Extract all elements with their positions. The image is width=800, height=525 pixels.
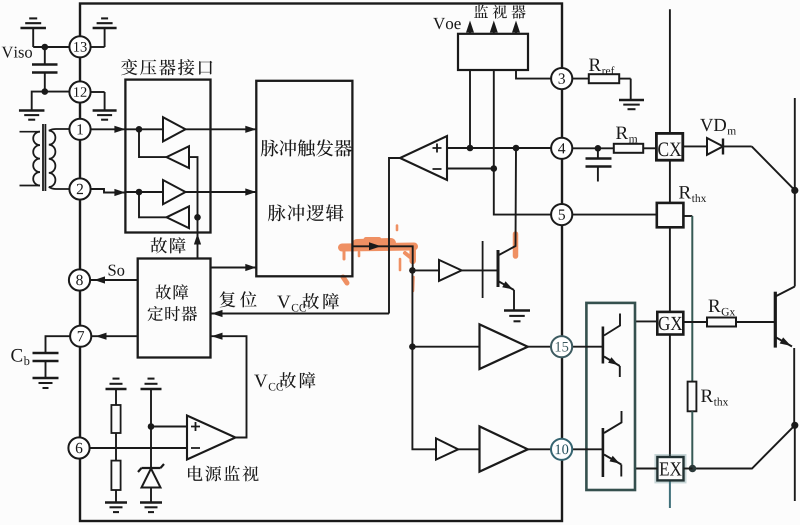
transformer interface box U1 — [125, 80, 210, 233]
wire EX to node — [684, 468, 693, 470]
pin 3 — [551, 68, 572, 89]
orange highlighter marks — [342, 226, 516, 292]
label C_b — [11, 349, 22, 362]
label R_m — [616, 127, 628, 139]
transistor Q1 — [462, 148, 516, 310]
pin 5 — [551, 204, 572, 225]
wire - input — [447, 168, 494, 170]
resistor R_m — [614, 144, 656, 153]
wire comparator output down to reset — [389, 158, 400, 314]
gate bus rail — [669, 9, 671, 508]
ground (left divider bottom, earth) — [105, 490, 127, 512]
wire A3 output to pulse trigger — [186, 188, 257, 195]
capacitor C_b — [33, 336, 71, 377]
label R_Gx — [709, 300, 721, 312]
wire pulse logic output (highlighted) — [353, 242, 416, 273]
ground (right of pin 13, inverted earth) — [90, 18, 116, 47]
transformer T1 — [20, 124, 70, 191]
wire A1 output to pulse trigger — [186, 126, 257, 133]
pin 12 — [69, 81, 90, 102]
terminal box CX — [656, 133, 682, 160]
label VD_m — [700, 119, 726, 131]
ground (C_b, earth) — [33, 377, 59, 379]
pin 6 — [68, 437, 89, 458]
wire driver box to EX — [635, 468, 657, 470]
buffer A6 (pin 15 driver) — [412, 324, 551, 369]
wire drive rail down — [409, 270, 436, 449]
resistor R_Gx — [683, 318, 775, 327]
IC package outline — [80, 4, 562, 522]
ground (top-left, inverted earth) — [20, 18, 46, 47]
pulse trigger box U4 — [256, 81, 352, 276]
label 脉冲逻辑 — [268, 204, 344, 221]
resistor R_ref — [572, 74, 630, 99]
ground (below Viso cap, earth) — [19, 92, 45, 120]
fault timer box U2 — [138, 259, 211, 358]
wire pin 4 to R_m — [572, 145, 614, 152]
wire Voe box to + net — [467, 70, 474, 151]
label 变压器接口 — [121, 59, 212, 75]
pin 2 — [69, 178, 90, 199]
label R_thx (upper) — [679, 186, 691, 198]
fault arrow from fault timer into U1 — [194, 217, 201, 258]
node EX output — [689, 465, 697, 473]
collector rail (top) — [794, 98, 796, 287]
wire Voe box to pin 3 — [516, 70, 551, 79]
wire pin 2 to U1 — [90, 189, 125, 196]
wire Voe box to - net / pin 5 — [491, 70, 552, 215]
transistor Q4 (lower darlington) — [572, 411, 621, 477]
wire Viso node to pin 13 — [33, 44, 69, 51]
buffer A5 — [412, 260, 461, 281]
terminal box GX — [657, 312, 683, 335]
resistor R_thx (lower, vertical) — [688, 382, 697, 469]
node emitter to EX return — [791, 422, 798, 429]
label V_CC 故障 (upper) — [277, 293, 339, 312]
label R_ref — [589, 59, 601, 71]
wire reset from desat comparator — [211, 310, 390, 317]
wire fault timer to pin 8 (So) — [90, 276, 138, 283]
ground (left divider top, inverted earth) — [106, 379, 127, 405]
pin 7 — [70, 326, 91, 347]
wire VCC-fault from power monitor into fault timer — [211, 333, 247, 438]
diode VD_m — [683, 138, 752, 155]
terminal box R_thx (upper) — [657, 203, 684, 227]
label Voe — [433, 18, 461, 29]
label 故障 (fault timer line 1) — [156, 284, 189, 299]
wire pin 1 to U1 — [90, 126, 125, 133]
op-amp U6 desat comparator (left-pointing) — [400, 136, 447, 180]
pin 4 — [551, 138, 572, 159]
buffer A7 (small, pin 10 chain) — [436, 438, 458, 459]
label So — [109, 265, 125, 276]
wire divider to pin6 rail — [115, 433, 117, 461]
buffer A3 (lower, in U1) — [125, 180, 185, 204]
label Viso — [2, 47, 32, 58]
pin 13 — [69, 36, 90, 57]
wire fault timer output to pulse logic — [211, 264, 257, 271]
transistor Q2 (external IGBT) — [775, 287, 795, 426]
wire fault timer to pin 7 — [91, 333, 137, 340]
ground (R_ref, earth) — [619, 99, 644, 101]
capacitor C_m — [586, 148, 612, 181]
wire EX return diagonal — [693, 425, 795, 468]
wire pin 6 to comparator - input — [90, 447, 188, 449]
buffer A8 (pin 10 driver) — [458, 426, 551, 471]
wire pin 5 to R_thx box — [572, 214, 657, 216]
monitor arrows up — [466, 21, 520, 35]
pin 10 — [551, 439, 572, 460]
capacitor C_viso — [32, 47, 58, 92]
label V_CC 故障 (lower) — [254, 372, 315, 391]
label 监视器 — [474, 5, 526, 19]
terminal box EX — [656, 456, 685, 482]
buffer A4 (feedback, left-pointing) — [139, 192, 201, 228]
node at pin 12 wire — [42, 88, 70, 95]
output darlington box U7 — [586, 303, 635, 490]
ground (zener bottom, earth) — [140, 501, 162, 503]
label 脉冲触发器 — [261, 139, 352, 156]
transistor Q3 (upper darlington) — [572, 314, 620, 378]
wire R_thx box to thermistor chain — [683, 216, 692, 382]
wire driver box to GX — [635, 320, 657, 322]
resistor R_b (lower divider) — [111, 461, 120, 490]
pin 8 — [69, 269, 90, 290]
wire + input to pin 4 — [447, 145, 551, 152]
resistor R_a (upper divider) — [111, 405, 120, 433]
label 电源监视 — [188, 466, 259, 482]
wire diode to collector rail — [752, 146, 799, 194]
buffer A1 (upper, in U1) — [125, 117, 185, 141]
ground (right of pin 12, earth) — [90, 92, 116, 120]
pin 15 — [551, 336, 572, 357]
label 复位 — [220, 291, 257, 307]
zener diode DZ — [138, 427, 164, 503]
ground (zener branch top, inverted earth) — [141, 379, 162, 427]
label R_thx (lower) — [701, 390, 713, 402]
ground (Q1 emitter, earth) — [504, 309, 530, 311]
emitter rail (bottom) — [794, 425, 796, 501]
buffer A2 (feedback, left-pointing) — [139, 129, 198, 217]
node zener branch to comparator + — [148, 423, 187, 430]
Voe monitor box U5 — [458, 34, 528, 70]
label 故障 (above fault timer) — [151, 237, 186, 253]
pin 1 — [69, 119, 90, 140]
op-amp U3 power monitor comparator — [187, 416, 236, 460]
label 定时器 (fault timer line 2) — [148, 306, 198, 321]
